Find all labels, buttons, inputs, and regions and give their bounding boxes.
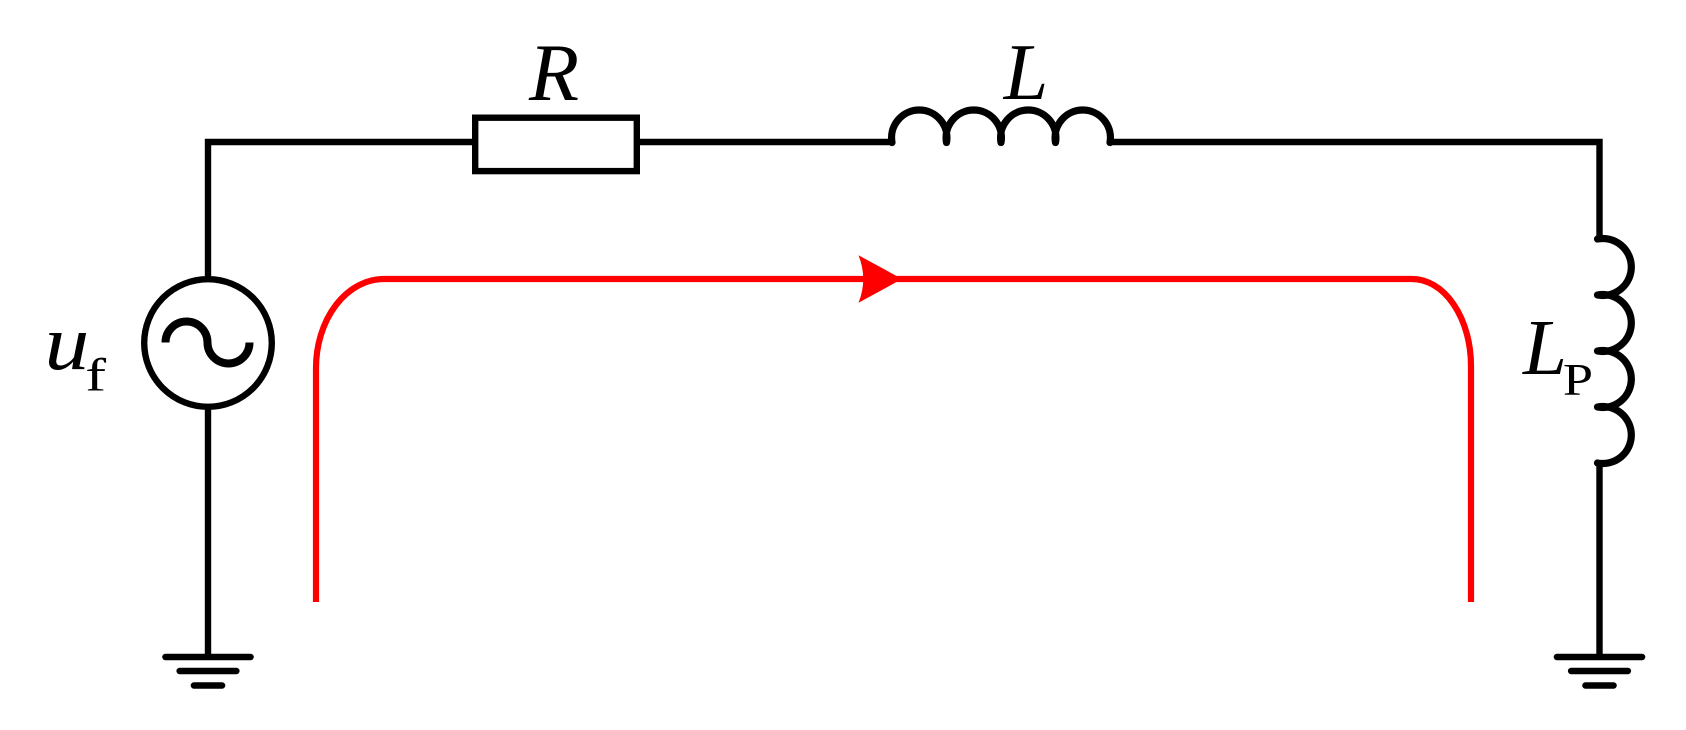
inductor L coils: [892, 110, 1111, 142]
voltage source uf circle: [144, 279, 272, 407]
wire: resistor to inductor L: [640, 139, 893, 145]
svg-text:u: u: [45, 300, 90, 386]
svg-text:R: R: [528, 27, 579, 118]
ground (left): [165, 657, 250, 686]
ground (right): [1557, 657, 1642, 686]
red current loop path: [316, 279, 1471, 602]
wire: Lp bottom to right ground: [1596, 462, 1602, 657]
wire: left vertical + top horizontal to resistor: [208, 142, 472, 280]
wire: source bottom to left ground: [205, 408, 211, 657]
resistor R box: [475, 118, 637, 171]
inductor Lp coils: [1598, 239, 1632, 464]
red current arrowhead: [859, 255, 903, 303]
svg-text:P: P: [1563, 354, 1593, 405]
svg-text:f: f: [85, 349, 106, 401]
voltage source uf sine symbol: [166, 322, 250, 364]
wire: inductor L to top-right corner, down to Lp: [1109, 142, 1600, 240]
svg-text:L: L: [1003, 29, 1049, 117]
svg-text:L: L: [1522, 305, 1567, 392]
